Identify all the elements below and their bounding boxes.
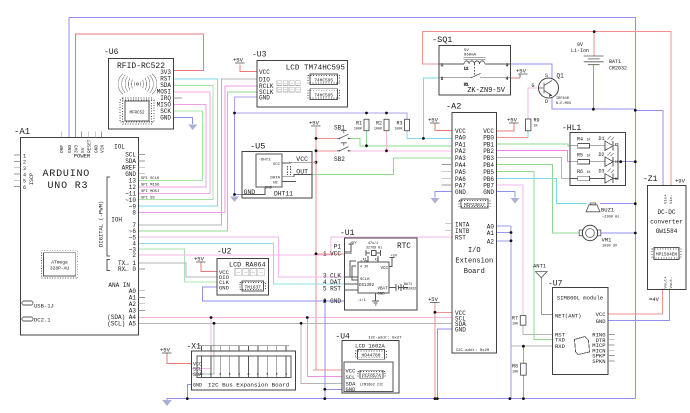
label +5V A2 bottom xyxy=(428,296,440,303)
svg-text:ARDUINO: ARDUINO xyxy=(43,169,91,180)
svg-text:GND: GND xyxy=(219,284,230,291)
svg-text:OUT: OUT xyxy=(296,169,308,176)
U6 IRQ stub xyxy=(173,97,182,99)
wire A5 SCL line gray xyxy=(139,322,453,324)
svg-text:R8: R8 xyxy=(512,364,518,370)
wire U6 MISO to pin12 xyxy=(139,105,206,187)
wire SQ1 pin4 to +5V xyxy=(511,77,520,79)
svg-text:+5V: +5V xyxy=(160,347,171,354)
svg-text:-X1: -X1 xyxy=(187,343,202,352)
svg-text:I2C-addr: 0x27: I2C-addr: 0x27 xyxy=(368,336,402,341)
U6 pin labels xyxy=(157,69,172,122)
wire R1 bottom xyxy=(366,131,368,146)
svg-text:RX← 0: RX← 0 xyxy=(118,266,136,273)
wire HL1 out to GND bus xyxy=(618,161,635,163)
DC jack xyxy=(22,317,51,324)
X1 pin labels xyxy=(193,361,202,388)
U5 outer pin labels xyxy=(296,156,308,176)
svg-text:MCP23017: MCP23017 xyxy=(464,203,485,208)
wire U4 SCL drop xyxy=(307,318,342,377)
svg-text:1K: 1K xyxy=(587,138,591,142)
wire PB5 to U7 TXD green xyxy=(497,171,553,339)
resistor R8 xyxy=(512,363,526,375)
svg-text:I/O: I/O xyxy=(468,247,481,255)
U3 pin labels xyxy=(259,69,274,102)
svg-text:SPI MOSI: SPI MOSI xyxy=(141,190,159,194)
wire pin7 to U3 RCLK violet xyxy=(139,86,258,213)
wire R7 bottom to U7 RST xyxy=(523,325,553,334)
svg-text:R1: R1 xyxy=(356,121,362,127)
wire pin2 to A2 RST pink xyxy=(139,237,453,255)
wire pin6 to U3 SCLK green xyxy=(139,92,258,231)
svg-text:GW1584: GW1584 xyxy=(656,228,678,235)
U1 inner circuit xyxy=(345,241,417,305)
svg-text:47u/1: 47u/1 xyxy=(368,241,378,246)
svg-text:3: 3 xyxy=(23,166,26,172)
svg-text:R2: R2 xyxy=(376,121,382,127)
LCD module U4 xyxy=(335,333,402,394)
svg-text:74HC595: 74HC595 xyxy=(314,78,333,84)
svg-text:-A1: -A1 xyxy=(14,127,30,137)
wire R2 bottom xyxy=(386,131,388,151)
svg-text:Q1: Q1 xyxy=(557,73,565,80)
U6 MFRC52 chip xyxy=(120,98,154,124)
wire U6 RST to pin9 cyan xyxy=(139,79,218,206)
svg-text:Vout+: Vout+ xyxy=(665,276,669,289)
svg-text:+9V: +9V xyxy=(675,178,686,185)
pushbutton SB2 xyxy=(334,143,351,163)
antenna ANT1 xyxy=(533,263,547,278)
wire PB6 to BUZ1 cyan xyxy=(497,178,587,203)
svg-text:DC-DC: DC-DC xyxy=(657,209,675,216)
arduino ICSP pins xyxy=(14,153,26,191)
SQ1 inductor L1 xyxy=(439,58,511,72)
wire battery 9V red rail xyxy=(423,32,671,186)
label +5V SQ1 out xyxy=(516,68,528,78)
wire +5V U3 VCC xyxy=(240,65,257,72)
label +5V U3 xyxy=(233,57,245,64)
svg-text:DS1302: DS1302 xyxy=(359,284,375,288)
battery BAT1 xyxy=(571,42,627,72)
svg-text:RFID-RC522: RFID-RC522 xyxy=(117,62,165,71)
svg-text:N-E-MOS: N-E-MOS xyxy=(556,102,571,106)
transistor Q1 xyxy=(532,73,572,107)
svg-text:LCD 1602A: LCD 1602A xyxy=(355,343,385,350)
svg-text:-DHT1: -DHT1 xyxy=(259,159,272,163)
wire U6 SCK to pin13 xyxy=(139,111,203,181)
svg-text:BUZ1: BUZ1 xyxy=(601,207,615,214)
svg-text:G: G xyxy=(532,83,535,89)
svg-text:R6: R6 xyxy=(577,169,583,175)
wire 3V3 arduino to U6 3V3 xyxy=(76,34,204,137)
svg-text:VCC: VCC xyxy=(296,156,308,163)
svg-text:10K: 10K xyxy=(512,371,519,375)
svg-text:3V3: 3V3 xyxy=(74,145,80,153)
svg-text:IRF840: IRF840 xyxy=(556,97,569,101)
svg-text:RST: RST xyxy=(455,235,466,242)
resistor R5 and LED D2 xyxy=(570,152,619,166)
svg-text:GND: GND xyxy=(346,386,357,393)
wire SQ1 pin2 cyan to PA0 xyxy=(423,78,439,139)
svg-text:VIN: VIN xyxy=(100,145,106,153)
wire A2 left +5V xyxy=(435,123,452,131)
svg-text:R4: R4 xyxy=(577,137,583,143)
wire VM1 out blue xyxy=(601,232,636,234)
wire A4 SDA line pink xyxy=(139,317,453,319)
svg-text:Vin+: Vin+ xyxy=(664,194,669,204)
svg-text:SPKN: SPKN xyxy=(592,358,605,365)
wire PB2 to HL1 D2 pink xyxy=(497,151,570,162)
U4 HD44780 chip xyxy=(356,350,387,360)
RTC module U1 xyxy=(340,229,417,310)
svg-text:D3: D3 xyxy=(599,169,605,175)
svg-text:1 CE: 1 CE xyxy=(360,261,368,265)
svg-text:VBAT: VBAT xyxy=(377,288,388,292)
svg-text:L1: L1 xyxy=(464,68,468,72)
svg-text:NC: NC xyxy=(273,182,278,186)
svg-text:960mA: 960mA xyxy=(464,54,477,58)
DHT11 sensor U5 xyxy=(242,142,312,199)
svg-text:5 RST: 5 RST xyxy=(323,285,341,292)
svg-text:D: D xyxy=(545,99,548,105)
svg-text:3: 3 xyxy=(506,64,508,68)
U3 74HC595 chips xyxy=(308,74,340,100)
svg-text:-SQ1: -SQ1 xyxy=(432,35,452,45)
wire A0A1A2 bus xyxy=(497,226,511,399)
svg-text:+5V: +5V xyxy=(428,296,439,303)
wire GND violet rail U3 to R1R2R3 xyxy=(235,97,408,119)
U7 pin labels xyxy=(555,312,581,350)
svg-text:MP1584EN: MP1584EN xyxy=(656,253,677,258)
svg-text:2: 2 xyxy=(441,78,443,82)
svg-text:MFRC52: MFRC52 xyxy=(129,112,145,116)
svg-text:-U4: -U4 xyxy=(335,333,350,342)
svg-text:D1: D1 xyxy=(599,136,605,142)
wire A2 right GND to ground xyxy=(497,192,515,198)
wire GND arduino-top to right bus xyxy=(69,18,635,399)
A2 left pin labels xyxy=(455,128,470,333)
wire U4 SDA drop xyxy=(301,323,342,383)
svg-text:4: 4 xyxy=(23,172,26,178)
svg-text:CR2032: CR2032 xyxy=(404,288,416,292)
svg-text:VCC: VCC xyxy=(380,267,388,271)
label +5V A2 left xyxy=(428,117,440,124)
svg-text:LCD TM74HC595: LCD TM74HC595 xyxy=(286,65,346,73)
wire battery plus xyxy=(593,32,595,56)
DC-DC converter Z1 xyxy=(643,175,686,290)
svg-text:S: S xyxy=(545,73,548,79)
svg-text:UNO R3: UNO R3 xyxy=(48,181,89,192)
wire A2 left GND to ground xyxy=(435,192,452,198)
svg-text:RESET: RESET xyxy=(86,139,92,153)
svg-text:+5V: +5V xyxy=(516,68,527,75)
svg-text:A1: A1 xyxy=(487,230,495,237)
svg-text:SPI SCLK: SPI SCLK xyxy=(141,177,160,181)
svg-text:NET(ANT): NET(ANT) xyxy=(555,312,581,319)
A2 right pin labels xyxy=(483,128,494,245)
wire +5V to U1 VCC xyxy=(316,253,345,255)
USB connector xyxy=(22,301,54,310)
wire A2 right +5V xyxy=(497,123,514,132)
wire SB1 to PA1 green xyxy=(349,138,452,145)
wire U2 VCC +5V xyxy=(201,262,217,272)
svg-text:USB-1J: USB-1J xyxy=(34,303,54,310)
arduino right pin labels xyxy=(107,152,136,328)
svg-text:IOH: IOH xyxy=(111,217,122,224)
U2 pin labels xyxy=(219,269,230,292)
RFID module U6 xyxy=(104,48,173,129)
svg-text:R5: R5 xyxy=(577,153,583,159)
resistor R3 xyxy=(394,119,409,131)
wire R9 top to Q1 gate pink xyxy=(528,88,538,119)
wire U4 GND joins U1 GND vertical xyxy=(325,388,342,390)
svg-text:-U7: -U7 xyxy=(548,280,563,289)
svg-text:SCLK: SCLK xyxy=(360,278,370,282)
wire pin5 to U1 CLK pink xyxy=(139,237,345,277)
svg-text:1: 1 xyxy=(441,64,443,68)
svg-text:CR2032: CR2032 xyxy=(609,66,627,72)
svg-text:10K: 10K xyxy=(512,323,519,327)
label +5V X1 xyxy=(160,347,172,354)
svg-text:4 IO: 4 IO xyxy=(360,266,368,270)
wire bottom GND rail xyxy=(167,399,635,400)
svg-text:-Z1: -Z1 xyxy=(643,175,658,184)
svg-text:GND: GND xyxy=(455,189,466,196)
svg-text:GND: GND xyxy=(67,145,73,153)
svg-text:SB2: SB2 xyxy=(334,156,345,163)
svg-text:GND: GND xyxy=(193,382,202,388)
wire PB1 to HL1 D1 green xyxy=(497,144,570,146)
I2C expansion board X1 xyxy=(187,343,296,391)
svg-text:ISCP: ISCP xyxy=(29,173,35,185)
wire X1 SDA drop xyxy=(192,323,214,374)
wire R9 bottom cyan xyxy=(527,131,529,138)
arduino digital bracket xyxy=(107,177,110,271)
svg-text:+5V: +5V xyxy=(194,256,205,263)
SIM800L module U7 xyxy=(548,280,608,375)
svg-text:6: 6 xyxy=(23,185,26,191)
svg-text:VM1: VM1 xyxy=(602,237,613,244)
svg-text:SPI SS: SPI SS xyxy=(141,196,155,200)
svg-text:2 GND: 2 GND xyxy=(323,298,341,305)
svg-text:A2: A2 xyxy=(487,238,495,245)
svg-text:Li-Ion: Li-Ion xyxy=(571,48,589,54)
svg-text:5: 5 xyxy=(23,179,26,185)
svg-text:GND: GND xyxy=(93,145,99,153)
wire ANT1 to U7 NET xyxy=(541,278,552,315)
svg-text:HD44780: HD44780 xyxy=(362,353,381,359)
U1 left pin labels xyxy=(323,244,341,306)
relay module SQ1 xyxy=(432,35,511,95)
X1 header pins xyxy=(197,345,291,377)
svg-text:Board: Board xyxy=(464,268,485,276)
U7 right stubs xyxy=(608,335,615,361)
svg-text:SIM800L module: SIM800L module xyxy=(557,295,603,302)
svg-text:2: 2 xyxy=(23,160,26,166)
svg-text:74HC595: 74HC595 xyxy=(314,92,333,98)
U7 sim card xyxy=(575,337,590,355)
wire U7 RXD line xyxy=(511,345,553,347)
wire +5V vertical net U5 U1 U4 xyxy=(316,127,342,370)
wire PB4 to VM1 green xyxy=(497,165,580,233)
svg-text:ATmega: ATmega xyxy=(51,260,68,266)
svg-text:100K: 100K xyxy=(374,128,383,132)
svg-text:DC2.1: DC2.1 xyxy=(34,317,51,324)
svg-text:2: 2 xyxy=(132,252,136,259)
wire U7 VCC from Z1 Vout+ xyxy=(608,290,662,314)
svg-text:DATA: DATA xyxy=(270,177,280,181)
svg-text:K1: K1 xyxy=(464,84,468,88)
U6 antenna coil xyxy=(118,74,157,95)
pushbutton SB1 xyxy=(334,125,351,140)
svg-text:SPI MISO: SPI MISO xyxy=(141,184,160,188)
HL1 common bus xyxy=(617,146,619,179)
svg-text:R3: R3 xyxy=(396,121,402,127)
svg-text:100K: 100K xyxy=(354,128,363,132)
svg-text:GND: GND xyxy=(244,189,256,196)
SQ1 relay contact K1 xyxy=(439,64,511,88)
arduino right pin stubs xyxy=(139,155,146,311)
U2 display digits xyxy=(235,269,264,276)
svg-text:Vin-: Vin- xyxy=(669,194,674,204)
A2 PA4-PA7 stubs xyxy=(442,165,452,231)
svg-text:328P-AU: 328P-AU xyxy=(50,266,70,272)
svg-text:5V: 5V xyxy=(80,147,86,153)
svg-text:PB2: PB2 xyxy=(483,148,494,155)
wire U6 MOSI to pin11 xyxy=(139,92,211,194)
svg-text:-U1: -U1 xyxy=(340,229,355,238)
wire U2 GND to U1 GND xyxy=(203,287,325,301)
wire U5 OUT to PA3 xyxy=(312,158,452,174)
svg-text:PA5: PA5 xyxy=(455,169,466,176)
wire +5V to SB1 xyxy=(316,137,337,139)
svg-text:-A2: -A2 xyxy=(446,102,461,112)
LCD display U3 xyxy=(252,51,348,107)
A2 MCP23017 chip xyxy=(459,199,490,208)
svg-text:~2300 Hz: ~2300 Hz xyxy=(602,216,619,220)
svg-text:GND: GND xyxy=(265,187,273,191)
svg-text:-U3: -U3 xyxy=(252,51,267,60)
svg-text:R9: R9 xyxy=(534,118,540,124)
wire pin4 to U1 DAT cyan xyxy=(139,243,345,284)
svg-text:4: 4 xyxy=(506,78,508,82)
svg-text:GND: GND xyxy=(596,318,607,325)
svg-text:1: 1 xyxy=(23,153,26,159)
wire U6 SDA to pin10 xyxy=(139,85,214,199)
svg-text:TM1637: TM1637 xyxy=(245,285,262,291)
svg-text:GND: GND xyxy=(483,189,494,196)
svg-text:1030 3V: 1030 3V xyxy=(602,245,618,249)
svg-text:I2C Bus Expansion Board: I2C Bus Expansion Board xyxy=(208,382,290,389)
wire X1 SCL drop xyxy=(192,318,211,369)
wire BUZ1 out blue xyxy=(600,203,635,205)
svg-text:ZK-ZN9-5V: ZK-ZN9-5V xyxy=(467,87,506,95)
wire pin8 to U3 DIO gray xyxy=(139,79,258,225)
wire Vin- blue into Z1 xyxy=(635,110,663,185)
svg-text:converter: converter xyxy=(650,219,683,226)
wire X1 GND xyxy=(187,384,191,398)
wire PB0 to R9 xyxy=(497,137,528,139)
svg-text:(SCL) A5: (SCL) A5 xyxy=(107,320,136,327)
svg-text:GND: GND xyxy=(377,293,385,297)
U4 inner LCM1602 board xyxy=(344,362,393,393)
ground A2 right xyxy=(511,198,520,204)
svg-text:RD: RD xyxy=(615,142,619,146)
svg-text:+5V: +5V xyxy=(233,57,244,64)
label +5V A2 right xyxy=(507,117,519,124)
svg-text:100K: 100K xyxy=(394,128,403,132)
wire U3 GND down to U5 gnd xyxy=(235,113,243,195)
wire SB2 to PA2 pink xyxy=(349,150,452,152)
junction dots xyxy=(593,30,596,33)
wire battery minus to GND rail xyxy=(592,65,594,110)
svg-text:GND: GND xyxy=(160,115,171,122)
ground bottom rail xyxy=(162,400,172,406)
wire +5V to SB2 xyxy=(316,150,337,152)
label +5V U2 xyxy=(194,256,206,263)
svg-text:DHT11: DHT11 xyxy=(274,191,293,198)
svg-text:Extension: Extension xyxy=(455,258,493,266)
svg-text:GND: GND xyxy=(455,326,466,333)
wire U6 GND to ground xyxy=(173,118,192,125)
svg-text:VCC: VCC xyxy=(273,163,281,167)
svg-text:DIGITAL (-PWM): DIGITAL (-PWM) xyxy=(98,201,105,247)
wire A2 bottom GND to rail xyxy=(437,329,452,399)
buzzer BUZ1 xyxy=(586,203,619,220)
svg-text:+5V: +5V xyxy=(507,117,518,124)
wire R8 top and bottom xyxy=(522,346,524,398)
wire X1 +5V xyxy=(167,353,192,364)
resistor R2 xyxy=(374,119,389,131)
svg-text:1K: 1K xyxy=(587,170,591,174)
svg-text:-U2: -U2 xyxy=(217,248,232,257)
wire U7 GND from Z1 Vout- xyxy=(608,290,670,321)
svg-text:PCF8574: PCF8574 xyxy=(362,374,381,379)
svg-text:5V: 5V xyxy=(464,49,469,53)
svg-text:=4V: =4V xyxy=(649,296,660,303)
svg-text:D2: D2 xyxy=(599,152,605,158)
svg-text:IOL: IOL xyxy=(114,144,125,151)
resistor R6 and LED D3 xyxy=(570,169,619,183)
svg-text:1K: 1K xyxy=(534,125,539,129)
svg-text:PA2: PA2 xyxy=(455,148,466,155)
wire PB7 to R7 pink xyxy=(497,185,523,316)
svg-text:32768 Hz: 32768 Hz xyxy=(366,247,382,251)
svg-text:Vout-: Vout- xyxy=(670,276,674,288)
resistor R4 and LED D1 xyxy=(570,136,619,151)
svg-text:ANA IN: ANA IN xyxy=(108,282,130,289)
ground U5 rail xyxy=(230,197,239,203)
svg-text:BAT1: BAT1 xyxy=(609,59,621,65)
SPI net labels xyxy=(141,177,160,200)
svg-text:VCC: VCC xyxy=(259,69,270,76)
svg-text:1K: 1K xyxy=(587,154,591,158)
svg-text:SDA: SDA xyxy=(193,372,202,378)
svg-text:R7: R7 xyxy=(512,316,518,322)
resistor R7 xyxy=(512,316,526,327)
svg-text:RTC: RTC xyxy=(397,243,411,251)
ground A2 left xyxy=(431,198,440,204)
svg-text:8: 8 xyxy=(132,210,136,217)
U2 TM1637 chip xyxy=(240,281,266,291)
wire PB3 to HL1 D3 gray xyxy=(497,158,570,179)
arduino A1 xyxy=(14,127,139,335)
ATmega chip xyxy=(42,251,78,278)
resistor R1 xyxy=(354,119,369,131)
wire cyan R3 to PA0 xyxy=(407,131,452,139)
svg-text:PB5: PB5 xyxy=(483,169,494,176)
svg-text:GND: GND xyxy=(259,94,270,101)
